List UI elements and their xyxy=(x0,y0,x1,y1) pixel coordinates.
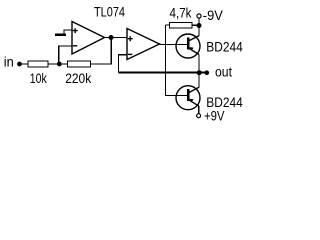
svg-text:TL074: TL074 xyxy=(94,5,125,20)
node out junction dot xyxy=(197,70,202,75)
wire out node down to Q2 emitter xyxy=(198,73,200,88)
wire input dot to R1 xyxy=(20,63,29,65)
transistor Q1 BD244 xyxy=(176,34,200,58)
svg-text:10k: 10k xyxy=(30,71,47,86)
svg-text:in: in xyxy=(4,55,14,70)
resistor R3 4,7k xyxy=(170,23,193,29)
wire Q1 emitter to out node xyxy=(198,55,200,73)
wire -9V node down to Q1 collector xyxy=(198,26,200,36)
resistor R1 10k xyxy=(28,61,48,67)
resistor R2 220k xyxy=(68,61,91,67)
wire R2 to feedback vertical xyxy=(91,38,112,65)
wire output line xyxy=(119,72,207,74)
wire node up to inverting input xyxy=(59,46,72,64)
terminal +9V open circle xyxy=(197,114,201,118)
wire U1B inverting input feedback from output line xyxy=(119,55,128,73)
terminal -9V open circle xyxy=(197,14,201,18)
node junction dot R1/R2/inverting-input xyxy=(57,62,62,67)
op-amp U1B xyxy=(127,29,160,60)
wire base drive vertical to Q2 base xyxy=(166,25,189,96)
wire R1 to R2 xyxy=(48,63,68,65)
op-amp U1A minus sign xyxy=(73,45,78,47)
svg-text:4,7k: 4,7k xyxy=(170,5,192,20)
wire R3 left lead xyxy=(166,24,170,26)
node output op-amp U1A dot xyxy=(109,35,114,40)
svg-text:out: out xyxy=(215,65,232,80)
svg-text:220k: 220k xyxy=(65,71,91,86)
wire node to -9V terminal xyxy=(198,18,200,25)
svg-text:BD244: BD244 xyxy=(206,40,243,55)
node -9V junction dot xyxy=(197,23,202,28)
op-amp U1B plus sign xyxy=(128,36,133,41)
svg-text:+9V: +9V xyxy=(204,108,225,123)
input terminal dot xyxy=(17,62,22,67)
wire Q2 collector to +9V terminal xyxy=(198,106,200,113)
op-amp U1A xyxy=(72,22,105,55)
ground xyxy=(55,34,66,36)
transistor Q2 BD244 xyxy=(176,86,200,110)
out terminal dot xyxy=(205,70,210,75)
svg-text:-9V: -9V xyxy=(203,8,223,23)
op-amp U1A plus sign xyxy=(73,28,78,33)
wire R3 right lead to -9V node xyxy=(192,24,199,26)
wire non-inverting input to ground xyxy=(64,30,72,34)
wire U1A output to U1B non-inverting input xyxy=(105,37,128,39)
wire U1B output to Q1 base xyxy=(160,44,189,46)
op-amp U1B minus sign xyxy=(128,53,133,55)
